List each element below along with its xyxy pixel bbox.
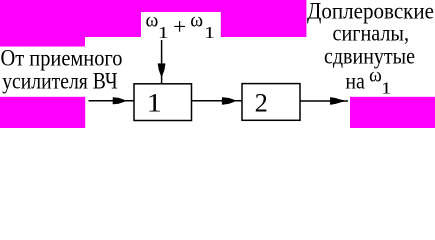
svg-text:1: 1 (381, 79, 391, 98)
block 1 (134, 84, 192, 121)
wire arrow block1 to block2 (192, 98, 243, 105)
right label line 4: na omega_1 (345, 66, 391, 98)
wire arrow out of block 2 (300, 98, 348, 104)
svg-text:2: 2 (255, 87, 268, 117)
svg-text:От приемного: От приемного (1, 46, 123, 71)
magenta top band (0, 0, 306, 37)
magenta bottom-left block (0, 97, 85, 128)
svg-text:1: 1 (158, 23, 169, 42)
svg-text:усилителя ВЧ: усилителя ВЧ (2, 69, 118, 94)
svg-text:ω: ω (190, 10, 203, 31)
white hole for omega label (141, 12, 221, 37)
block 2 (242, 84, 300, 121)
label omega1 + omega1 (146, 10, 216, 42)
svg-text:на: на (345, 69, 365, 94)
magenta left lobe (0, 37, 85, 47)
svg-text:1: 1 (147, 87, 162, 117)
svg-text:1: 1 (204, 23, 215, 42)
right label (307, 0, 434, 69)
svg-text:сигналы,: сигналы, (333, 21, 410, 46)
svg-text:ω: ω (146, 10, 159, 31)
magenta bottom-right block (350, 97, 435, 128)
vertical wire arrow into block 1 top (158, 40, 165, 84)
svg-text:+: + (173, 14, 186, 39)
wire arrow into block 1 from left (89, 98, 134, 104)
